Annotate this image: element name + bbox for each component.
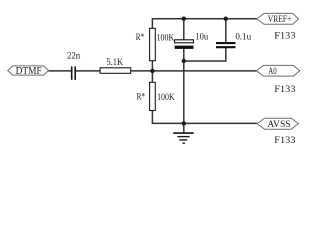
svg-text:AVSS: AVSS	[267, 120, 290, 130]
junction: bottom rail at ground	[182, 121, 186, 125]
port DTMF	[8, 66, 49, 77]
svg-text:100K: 100K	[157, 33, 175, 43]
svg-text:F133: F133	[274, 85, 295, 95]
port VREF+	[257, 13, 299, 25]
wire: C3 10u bottom down to bottom rail	[183, 49, 185, 124]
wire: top rail to VREF+	[152, 19, 257, 29]
resistor R* 100K lower	[137, 82, 175, 110]
svg-text:100K: 100K	[157, 93, 175, 103]
ground	[173, 133, 194, 143]
capacitor 0.1u	[216, 33, 251, 48]
wire: lower R2 to bottom rail to AVSS	[152, 110, 257, 123]
wire: ground stub	[183, 123, 185, 132]
wire: node mid to C4 0.1u bottom	[184, 48, 226, 61]
svg-text:F133: F133	[274, 32, 295, 42]
capacitor 10u polarized	[175, 33, 209, 49]
svg-text:R*: R*	[137, 92, 146, 102]
junction: mid node at 10u	[182, 59, 186, 63]
svg-text:VREF+: VREF+	[268, 15, 291, 25]
svg-text:5.1K: 5.1K	[106, 58, 123, 68]
svg-text:10u: 10u	[195, 33, 208, 43]
junction: top rail at 10u	[182, 17, 186, 21]
wire: C 22n to R 5.1K	[76, 70, 101, 72]
wire: DTMF to C 22n	[48, 70, 71, 72]
svg-text:DTMF: DTMF	[16, 66, 43, 77]
port AVSS	[257, 118, 298, 130]
svg-text:A0: A0	[268, 67, 277, 77]
port A0	[256, 65, 299, 77]
svg-text:F133: F133	[274, 136, 295, 145]
wire: top rail to C4 0.1u top	[225, 19, 227, 43]
resistor R* 100K upper	[136, 28, 175, 60]
wire: R 5.1K to port A0	[131, 70, 257, 72]
svg-text:0.1u: 0.1u	[235, 33, 251, 43]
svg-text:R*: R*	[136, 33, 145, 43]
wire: top rail to C3 10u	[183, 19, 185, 40]
junction: R divider node	[150, 69, 154, 73]
junction: top rail at 0.1u	[224, 17, 228, 21]
svg-text:22n: 22n	[67, 50, 81, 60]
resistor 5.1K	[100, 58, 131, 73]
capacitor C 22n	[67, 50, 81, 80]
wire: upper R1 to node junction	[151, 59, 153, 83]
